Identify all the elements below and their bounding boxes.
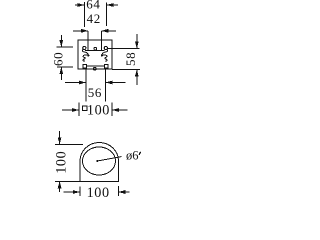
plan view square outline — [78, 40, 112, 69]
dim 100 left: bottom extension line — [55, 180, 80, 182]
leader line to circle — [97, 157, 121, 161]
spring squiggle left — [82, 50, 88, 62]
svg-text:100: 100 — [54, 151, 70, 174]
dim sq100: left arrow — [62, 108, 79, 112]
front view dome outline — [80, 143, 119, 182]
inner vertical line right (42 ref) — [100, 31, 102, 51]
keyhole circle top-right — [104, 46, 107, 49]
small circle top-center — [94, 47, 97, 50]
bottom square left — [83, 64, 87, 68]
label superscript tick — [139, 152, 140, 155]
top dim 64: left extension bar — [84, 2, 86, 27]
top dim 64: right extension bar — [106, 3, 108, 27]
dim 42: left arrow — [73, 29, 88, 33]
keyhole circle top-left — [83, 46, 86, 49]
dim 60: top extension line — [57, 46, 74, 48]
dim 100 left: top extension line — [55, 143, 83, 145]
dim 56: right extension bar — [105, 70, 107, 102]
small circle bottom-center — [93, 67, 96, 70]
dim 58: top extension line — [107, 47, 140, 49]
svg-text:58: 58 — [123, 52, 138, 66]
top dim 64: right arrow — [107, 3, 119, 7]
dim sq100: right arrow — [112, 108, 127, 112]
svg-text:42: 42 — [87, 11, 101, 26]
dim 56: left extension bar — [85, 70, 87, 102]
inner vertical line left (42 ref) — [87, 31, 89, 51]
dim 56: left arrow — [65, 81, 86, 85]
svg-text:60: 60 — [51, 52, 66, 66]
top dim 64: left arrow — [75, 3, 85, 7]
dim 58: bottom arrow segment — [135, 70, 139, 86]
front view circle — [83, 147, 116, 175]
svg-text:ø6: ø6 — [126, 149, 139, 163]
dim 42: right arrow — [101, 29, 116, 33]
clip dot left — [87, 54, 89, 56]
dim 100 bottom: left extension bar — [79, 187, 81, 197]
dim 100 left: bottom arrow segment — [58, 181, 62, 192]
svg-text:100: 100 — [87, 103, 110, 119]
dim sq100: left extension bar — [78, 103, 80, 117]
square symbol of sq100 — [82, 106, 87, 111]
dim 100 bottom: right extension bar — [117, 186, 119, 196]
dim 60: bottom extension line — [57, 66, 73, 68]
dim 60: top arrow segment — [59, 35, 63, 47]
dim 58: bottom extension line — [112, 69, 140, 71]
dim 60: bottom arrow segment — [59, 67, 63, 80]
dim sq100: right extension bar — [111, 103, 113, 117]
svg-text:56: 56 — [88, 85, 102, 100]
bottom crossbar — [87, 65, 105, 67]
spring squiggle right — [102, 50, 108, 62]
dim 100 left: top arrow segment — [58, 131, 62, 145]
dim 100 bottom: right arrow — [118, 190, 129, 194]
dim 58: top arrow segment — [135, 34, 139, 48]
dim 56: right arrow — [106, 81, 126, 85]
clip dot right — [101, 54, 103, 56]
svg-text:100: 100 — [87, 185, 110, 200]
dim 100 bottom: left arrow — [63, 190, 79, 194]
bottom square right — [105, 64, 109, 68]
inner top crossbar — [85, 50, 104, 52]
svg-text:64: 64 — [86, 0, 100, 12]
